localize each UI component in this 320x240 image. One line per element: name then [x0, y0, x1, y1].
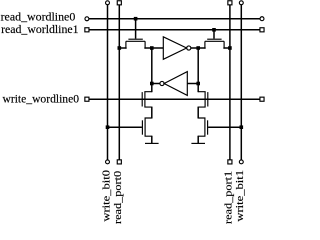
- port read_wordline0 right (circle): [260, 17, 264, 21]
- svg-text:read_port0: read_port0: [112, 170, 124, 224]
- ground right: [191, 142, 205, 144]
- wire gate M5 from write_bit0: [108, 126, 142, 128]
- svg-text:read_worldline1: read_worldline1: [1, 22, 78, 36]
- port write_wordline0 left (square): [85, 97, 89, 101]
- port read_worldline1 left (square): [85, 28, 89, 32]
- node read_port0 junction: [118, 46, 122, 50]
- wire M1 drain to read_port0: [119, 47, 126, 49]
- node L mid junction: [150, 82, 154, 86]
- wire write_bit0 vertical: [107, 5, 109, 160]
- wire inverter U2 output to node L: [152, 83, 160, 85]
- wire node R between M4 and M6: [197, 107, 199, 119]
- wire M1 source to node L: [145, 47, 152, 49]
- node write_bit1 gate junction: [240, 125, 244, 129]
- wire read_port1 vertical: [229, 5, 231, 160]
- svg-text:write_bit1: write_bit1: [234, 170, 246, 222]
- port read_port1 bottom (square): [228, 160, 232, 164]
- port write_bit0 top (circle): [106, 1, 110, 5]
- node write_bit0 gate junction: [106, 125, 110, 129]
- port read_port1 top (square): [228, 1, 232, 5]
- ground left: [145, 142, 159, 144]
- port write_bit0 bottom (circle): [106, 160, 110, 164]
- node R mid junction: [196, 82, 200, 86]
- wire write_wordline0: [89, 98, 260, 100]
- port write_wordline0 right (square): [260, 97, 264, 101]
- transistor M2 read access right (gate read_worldline1): [205, 39, 224, 48]
- wire gate M6 to write_bit1: [208, 126, 241, 128]
- wire node L to ground: [151, 136, 153, 143]
- port read_worldline1 right (square): [260, 28, 264, 32]
- node gate M2 junction: [212, 28, 216, 32]
- wire node L between M3 and M5: [151, 107, 153, 119]
- op-amp U1 top inverter: [163, 37, 191, 60]
- node read_port1 junction: [228, 46, 232, 50]
- node L top junction: [150, 46, 154, 50]
- port read_wordline0 left (circle): [85, 17, 89, 21]
- wire node R to ground: [197, 136, 199, 143]
- wire M2 source to read_port1: [224, 47, 230, 49]
- wire gate stub M2: [213, 30, 215, 39]
- wire inverter U1 input: [152, 47, 164, 49]
- svg-text:write_wordline0: write_wordline0: [3, 91, 80, 105]
- op-amp U2 bottom inverter: [160, 72, 187, 96]
- wire inverter U1 output: [191, 47, 198, 49]
- transistor M5 pulldown left (gate from write_bit0): [142, 118, 151, 136]
- wire M2 drain to node R: [198, 47, 205, 49]
- wire node R vertical: [197, 48, 199, 92]
- svg-text:read_port1: read_port1: [223, 171, 235, 224]
- transistor M4 write access right (gate write_wordline0): [198, 92, 208, 107]
- transistor M3 write access left (gate write_wordline0): [142, 92, 152, 107]
- node gate M1 junction: [134, 17, 138, 21]
- wire read_worldline1: [89, 29, 260, 31]
- wire gate stub M1: [135, 19, 137, 39]
- port write_bit1 bottom (circle): [239, 160, 243, 164]
- svg-text:write_bit0: write_bit0: [100, 169, 112, 221]
- port write_bit1 top (circle): [239, 1, 243, 5]
- wire read_wordline0: [89, 18, 260, 20]
- port read_port0 bottom (square): [117, 160, 121, 164]
- transistor M6 pulldown right (gate from write_bit1): [198, 118, 207, 136]
- node R top junction: [196, 46, 200, 50]
- wire node L vertical: [151, 48, 153, 92]
- port read_port0 top (square): [117, 1, 121, 5]
- transistor M1 read access left (gate read_wordline0): [126, 39, 145, 48]
- wire inverter U2 input from node R: [187, 83, 198, 85]
- wire write_bit1 vertical: [240, 5, 242, 160]
- wire read_port0 vertical: [118, 5, 120, 160]
